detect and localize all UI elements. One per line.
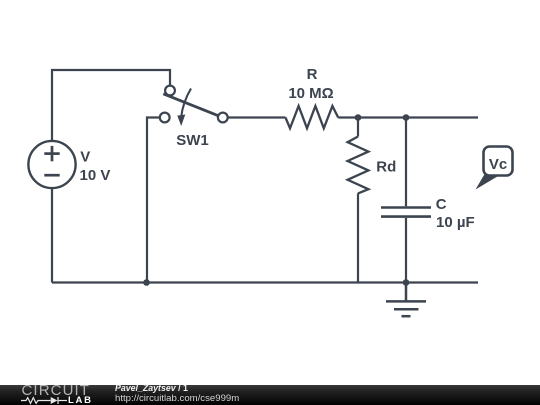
resistor R [286,106,339,128]
node junction bottom at ground [403,279,410,286]
node junction top at C [403,114,410,121]
resistor Rd [348,118,369,283]
voltage source V [28,141,75,188]
label SW1 [176,132,209,149]
svg-text:Vc: Vc [489,156,507,173]
svg-text:V: V [80,149,90,166]
capacitor C [381,118,431,283]
CircuitLab logo squiggle [21,396,69,405]
label C value [436,196,475,231]
wire top-left from source to switch [52,70,170,141]
wire R to right stub [338,116,478,118]
svg-text:10 µF: 10 µF [436,214,475,231]
svg-text:10 V: 10 V [80,167,111,184]
label Rd [376,159,396,176]
CircuitLab logo wordmark [22,383,91,398]
node Vc flag [476,147,513,190]
wire switch lower contact down to bottom rail [147,118,160,283]
wire bottom rail [52,281,478,283]
wire switch to resistor R [228,116,286,118]
footer author text [115,384,188,394]
wire source bottom down [51,188,53,282]
svg-text:10 MΩ: 10 MΩ [288,85,333,102]
footer url text [115,394,239,405]
svg-text:Rd: Rd [376,159,396,176]
node junction top at Rd [355,114,362,121]
label R value [288,66,333,102]
ground [386,283,426,317]
footer bar [0,385,540,405]
node junction bottom-left [143,279,150,286]
svg-text:R: R [307,66,318,83]
label V value [80,149,111,184]
svg-text:C: C [436,196,447,213]
switch SW1 [160,86,228,126]
svg-text:SW1: SW1 [176,132,209,149]
